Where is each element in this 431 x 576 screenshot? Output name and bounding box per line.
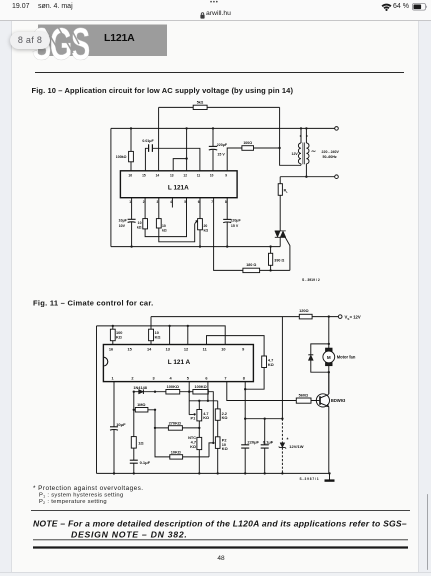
resistor 100KOhm A (pin3-pin5 row): [155, 385, 189, 394]
svg-text:220μF: 220μF: [217, 143, 228, 147]
svg-text:KΩ: KΩ: [116, 336, 122, 340]
wire: pin14 column up to top rail: [158, 107, 160, 170]
svg-text:100kΩ: 100kΩ: [116, 155, 127, 159]
svg-text:15 V: 15 V: [231, 224, 239, 228]
node: pot bottom on ground rail: [199, 245, 201, 247]
svg-text:3: 3: [153, 377, 155, 381]
svg-text:100KΩ: 100KΩ: [167, 385, 179, 389]
wire: ground rail upper (pins 13,12,10): [97, 326, 226, 345]
node: rail2-pin10 junction: [212, 127, 214, 129]
triac Q1: [275, 231, 290, 271]
node: rail2-pin12 junction: [185, 127, 187, 129]
resistor 100kOhm (pin16): [116, 128, 134, 170]
svg-text:L: L: [286, 190, 288, 194]
svg-text:1: 1: [129, 200, 131, 204]
svg-text:100Ω: 100Ω: [243, 141, 252, 145]
wire: bottom ground rail (fig11): [97, 472, 330, 474]
FIG10 placeholder: [111, 101, 340, 282]
svg-text:KΩ: KΩ: [203, 416, 209, 420]
svg-text:0.1μF: 0.1μF: [263, 440, 274, 445]
svg-text:6: 6: [198, 200, 200, 204]
svg-text:1: 1: [112, 377, 115, 381]
op-amp U1 : IC L121A (fig10): [120, 171, 237, 198]
svg-text:kΩ: kΩ: [162, 228, 167, 232]
svg-text:L 121 A: L 121 A: [168, 359, 191, 366]
motor M (fan): [323, 317, 356, 394]
footnotes: [31, 485, 410, 562]
svg-text:1MΩ: 1MΩ: [137, 403, 145, 407]
svg-text:4: 4: [170, 377, 173, 381]
wire: supply rail 2: [111, 127, 335, 129]
potentiometer 20kOhm (pin6): [198, 198, 209, 247]
svg-text:∼: ∼: [311, 149, 316, 155]
svg-text:S - 3 9 8 7 / 1: S - 3 9 8 7 / 1: [300, 477, 319, 481]
wire: pin8 node to protection branch: [245, 418, 282, 420]
wire: pin4 stub: [171, 198, 173, 208]
svg-text:390 Ω: 390 Ω: [274, 258, 284, 262]
svg-text:11: 11: [203, 348, 208, 352]
resistor 100KOhm B (pin5 to P2 wiper): [189, 385, 213, 443]
resistor 1Ohm + capacitor 0.1uF (pin2 leg): [130, 410, 151, 475]
svg-text:P1: P1: [191, 416, 197, 420]
svg-text:Fig. 11 – Cimate control for c: Fig. 11 – Cimate control for car.: [33, 298, 154, 307]
zener diode 12V/1W (dashed protection): [279, 419, 304, 475]
svg-text:1N4148: 1N4148: [133, 386, 147, 390]
wire: pin12 to rail: [187, 326, 189, 345]
wire: overvoltage branch from +12V: [281, 317, 283, 419]
diode 1N4148 (pin2-pin3 row): [133, 386, 157, 394]
svg-text:20: 20: [204, 224, 208, 228]
svg-text:kΩ: kΩ: [204, 228, 209, 232]
potentiometer P2 10KOhm: [209, 437, 228, 475]
SGS logo block: [32, 20, 167, 70]
svg-text:13: 13: [170, 174, 174, 178]
svg-text:2: 2: [143, 200, 145, 204]
svg-text:220μF: 220μF: [230, 218, 241, 222]
svg-text:NTC: NTC: [188, 436, 196, 440]
header rule: [35, 72, 404, 74]
node: pin1 rail junction: [113, 472, 115, 474]
svg-text:12: 12: [184, 348, 188, 352]
svg-text:M: M: [327, 355, 331, 360]
pin numbers bottom row 1..8 (fig11): [112, 377, 246, 381]
svg-text:*: *: [287, 438, 289, 444]
svg-text:L 121A: L 121A: [168, 185, 189, 192]
resistor 100KOhm (pin16 column): [110, 326, 122, 345]
wire: left return vertical: [110, 128, 112, 246]
svg-text:L121A: L121A: [104, 32, 135, 44]
wire: top rail right drop to transformer secondary bottom: [280, 107, 301, 165]
resistor 4.7KOhm (pin11 to pin8): [207, 336, 274, 390]
resistor 10kOhm (pin2): [137, 198, 187, 237]
svg-text:KΩ: KΩ: [190, 445, 196, 449]
svg-text:= 12V: = 12V: [350, 315, 361, 320]
svg-text:120Ω: 120Ω: [299, 309, 309, 313]
wire: pin13 jog to pin12 column: [173, 159, 186, 171]
svg-text:12V/1W: 12V/1W: [289, 444, 303, 449]
svg-text:100KΩ: 100KΩ: [194, 385, 206, 389]
node: 100K top on rail: [112, 325, 114, 327]
resistor 2.2KOhm: [215, 401, 227, 437]
svg-text:5kΩ: 5kΩ: [197, 101, 204, 105]
node: 100R to secondary-bottom vertical: [278, 147, 280, 149]
resistor 10kOhm (pin3): [156, 198, 194, 242]
svg-text:7: 7: [211, 200, 213, 204]
svg-text:DESIGN NOTE – DN 382.: DESIGN NOTE – DN 382.: [71, 530, 188, 540]
node: 4.7K bottom on pin8 column: [244, 388, 246, 390]
resistor 100Ohm (pin9 row): [227, 141, 279, 171]
svg-text:KΩ: KΩ: [268, 363, 274, 367]
svg-text:10: 10: [222, 443, 226, 447]
svg-text:16: 16: [109, 348, 113, 352]
svg-text:5: 5: [184, 200, 186, 204]
svg-text:180 Ω: 180 Ω: [246, 263, 256, 267]
svg-text:10: 10: [138, 221, 142, 225]
node: jog junction on pin12 column: [185, 157, 187, 159]
node: pin5 junction: [188, 391, 190, 393]
wire: pin12 column to rail2: [186, 128, 188, 170]
wire: left return vertical (fig11): [96, 326, 98, 474]
svg-text:4.7: 4.7: [191, 441, 196, 445]
svg-text:220 - 240V: 220 - 240V: [322, 150, 340, 154]
svg-text:50–60Hz: 50–60Hz: [323, 155, 337, 159]
phasing dots: [300, 135, 302, 137]
svg-text:12V: 12V: [291, 152, 298, 156]
svg-text:16: 16: [128, 174, 132, 178]
svg-text:4: 4: [170, 200, 172, 204]
wire: pin5 stub: [188, 382, 190, 392]
node: rail2-100k junction: [130, 127, 132, 129]
svg-text:S - 3919 / 2: S - 3919 / 2: [302, 278, 320, 282]
svg-text:10: 10: [221, 348, 225, 352]
svg-text:12: 12: [183, 174, 187, 178]
svg-text:10: 10: [210, 174, 214, 178]
svg-text:15 V: 15 V: [217, 152, 225, 156]
svg-text:Motor fan: Motor fan: [337, 355, 356, 360]
svg-text:3: 3: [157, 200, 159, 204]
svg-text:9: 9: [225, 174, 227, 178]
terminal: AC bottom: [335, 175, 339, 179]
resistor 120Ohm (supply): [299, 309, 312, 319]
node: pin8 cap on ground rail: [226, 245, 228, 247]
resistor 390Ohm (gate-MT1): [269, 247, 285, 271]
svg-text:10: 10: [162, 224, 166, 228]
svg-text:KΩ: KΩ: [222, 416, 228, 420]
potentiometer 20kOhm (pin6) wiper arrow: [195, 221, 198, 224]
svg-text:10: 10: [155, 331, 159, 335]
svg-text:P2: P2: [222, 438, 227, 442]
svg-text:6: 6: [205, 377, 207, 381]
transistor BDW93: [316, 372, 346, 473]
svg-text:Fig. 10 – Application circuit: Fig. 10 – Application circuit for low AC…: [32, 86, 294, 95]
svg-text:4.7: 4.7: [203, 412, 208, 416]
svg-text:100: 100: [116, 331, 122, 335]
svg-text:14: 14: [147, 348, 152, 352]
node: 390R top on ground rail: [269, 245, 271, 247]
ground symbol: [325, 473, 335, 480]
terminal: Vs = 12V: [338, 315, 360, 321]
battery icon: [412, 3, 428, 11]
svg-text:5: 5: [187, 377, 190, 381]
resistor 5kOhm (top): [193, 101, 207, 110]
capacitor 220uF 15V (pin8): [223, 198, 241, 247]
svg-text:P1 : system hysteresis setting: P1 : system hysteresis setting: [39, 493, 123, 499]
wire: bottom AC line: [280, 176, 335, 178]
resistor 180Ohm (gate row from pin7): [214, 198, 290, 273]
resistor 270KOhm row: [154, 410, 201, 430]
capacitor 10uF (pin1): [110, 382, 126, 475]
wifi icon: [381, 3, 392, 11]
transformer T1: [291, 127, 339, 177]
pin numbers bottom row 1..8: [129, 200, 227, 204]
svg-text:2.2: 2.2: [222, 412, 227, 416]
node: supply to motor branch: [328, 315, 330, 317]
node: pin1 cap on ground rail: [130, 245, 132, 247]
svg-text:15: 15: [128, 348, 133, 352]
capacitor 220uF 15V (pin10 column): [209, 128, 228, 170]
wire: pin13 to rail: [169, 326, 171, 345]
svg-text:* Protection against overvolta: * Protection against overvoltages.: [33, 485, 144, 492]
resistor 560Ohm (base): [227, 382, 316, 404]
wire: +12V supply rail: [151, 316, 338, 318]
FIG11 placeholder: [97, 309, 361, 481]
wire: bottom ground rail: [111, 246, 280, 248]
svg-text:8: 8: [243, 377, 246, 381]
svg-text:KΩ: KΩ: [222, 447, 228, 451]
resistor 10KOhm row (bottom): [155, 428, 209, 459]
resistor 1MOhm (pin2-pin3): [133, 392, 157, 412]
svg-text:NOTE – For a more detailed des: NOTE – For a more detailed description o…: [33, 519, 407, 529]
wire: top rail (5k feed): [159, 106, 280, 108]
svg-text:1Ω: 1Ω: [138, 440, 144, 445]
capacitor 220uF (pin8): [241, 382, 259, 475]
capacitor 0.1uF (supply): [261, 418, 274, 475]
terminal: AC top: [335, 127, 339, 131]
svg-text:13: 13: [166, 348, 170, 352]
svg-text:kΩ: kΩ: [137, 226, 142, 230]
svg-text:0.1μF: 0.1μF: [140, 460, 151, 465]
svg-text:10μF: 10μF: [119, 218, 128, 222]
thermistor NTC 4.7KOhm: [188, 428, 202, 475]
svg-text:10KΩ: 10KΩ: [171, 450, 181, 454]
node: winding tops on rail2: [300, 127, 302, 129]
potentiometer P1 4.7KOhm: [189, 401, 209, 428]
node: primary bottom on AC line: [305, 176, 307, 178]
wire: pin6/P1 bus: [189, 382, 218, 415]
svg-text:11: 11: [197, 174, 201, 178]
node: 390R bottom on gate row: [269, 269, 271, 271]
svg-text:10μF: 10μF: [116, 422, 126, 427]
pin numbers top row 16..9 (fig11): [109, 348, 244, 352]
pin numbers top row 16..9: [128, 174, 227, 178]
node: emitter rail junction: [328, 472, 330, 474]
svg-text:4.7: 4.7: [268, 358, 273, 362]
diode freewheel (across motor): [308, 343, 330, 374]
svg-text:270KΩ: 270KΩ: [169, 421, 181, 425]
svg-text:KΩ: KΩ: [155, 336, 161, 340]
svg-text:BDW93: BDW93: [331, 398, 346, 403]
svg-text:P2 : temperature setting: P2 : temperature setting: [39, 499, 107, 505]
svg-text:15: 15: [142, 174, 146, 178]
resistor 10KOhm (pin14 column): [149, 317, 161, 345]
svg-text:220μF: 220μF: [247, 440, 259, 445]
resistor RL (load): [278, 177, 288, 231]
primary winding 220-240V: [306, 128, 309, 176]
svg-text:560Ω: 560Ω: [299, 394, 309, 398]
capacitor 10uF 10V (pin1): [119, 198, 136, 247]
svg-text:0.01μF: 0.01μF: [142, 139, 154, 143]
core: [303, 143, 305, 165]
secondary winding 12V: [298, 128, 301, 165]
svg-text:9: 9: [242, 348, 244, 352]
svg-text:8: 8: [225, 200, 227, 204]
op-amp U2 : IC L121A (fig11): [103, 345, 253, 382]
svg-text:10V: 10V: [119, 224, 126, 228]
svg-text:2: 2: [131, 377, 133, 381]
svg-text:48: 48: [217, 555, 225, 562]
capacitor 0.01uF (pin15 to pin11): [142, 139, 200, 171]
svg-text:7: 7: [224, 377, 226, 381]
iPad status / Safari toolbar: [0, 0, 431, 21]
svg-text:14: 14: [156, 174, 160, 178]
